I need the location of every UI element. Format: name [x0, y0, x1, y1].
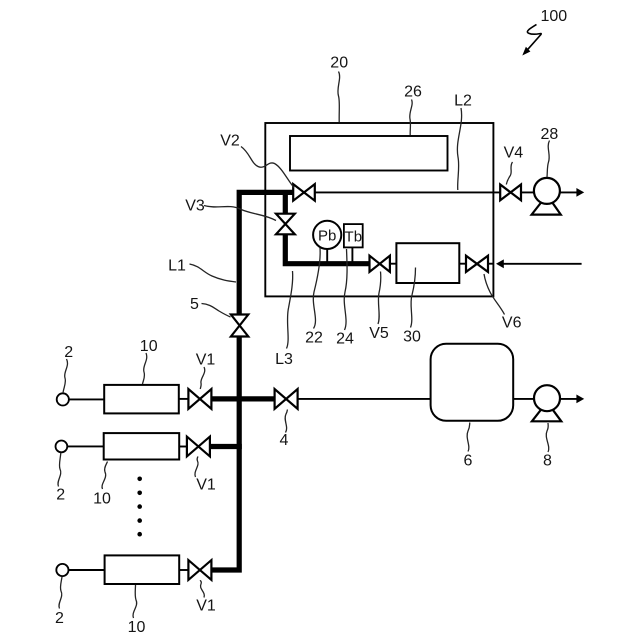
- svg-text:V4: V4: [504, 144, 524, 161]
- svg-text:5: 5: [190, 296, 199, 313]
- svg-text:V1: V1: [196, 598, 216, 615]
- svg-text:L1: L1: [168, 258, 186, 275]
- svg-text:V5: V5: [369, 325, 389, 342]
- svg-text:2: 2: [56, 487, 65, 504]
- svg-text:28: 28: [541, 126, 559, 143]
- svg-text:4: 4: [280, 432, 289, 449]
- svg-text:L2: L2: [454, 92, 472, 109]
- svg-text:V6: V6: [502, 315, 522, 332]
- svg-text:Pb: Pb: [318, 227, 336, 244]
- svg-text:Tb: Tb: [345, 228, 363, 245]
- svg-text:V2: V2: [220, 133, 240, 150]
- svg-text:V1: V1: [196, 477, 216, 494]
- svg-text:22: 22: [305, 330, 323, 347]
- svg-text:10: 10: [128, 619, 146, 636]
- svg-text:10: 10: [93, 491, 111, 508]
- svg-text:L3: L3: [275, 351, 293, 368]
- svg-text:6: 6: [464, 453, 473, 470]
- svg-text:8: 8: [543, 453, 552, 470]
- svg-text:V1: V1: [196, 352, 216, 369]
- svg-text:30: 30: [403, 329, 421, 346]
- svg-text:24: 24: [336, 331, 354, 348]
- svg-text:26: 26: [404, 84, 422, 101]
- svg-text:2: 2: [64, 344, 73, 361]
- svg-text:20: 20: [330, 54, 348, 71]
- svg-text:10: 10: [140, 338, 158, 355]
- svg-text:100: 100: [540, 8, 567, 25]
- svg-text:V3: V3: [185, 198, 205, 215]
- svg-text:2: 2: [55, 610, 64, 627]
